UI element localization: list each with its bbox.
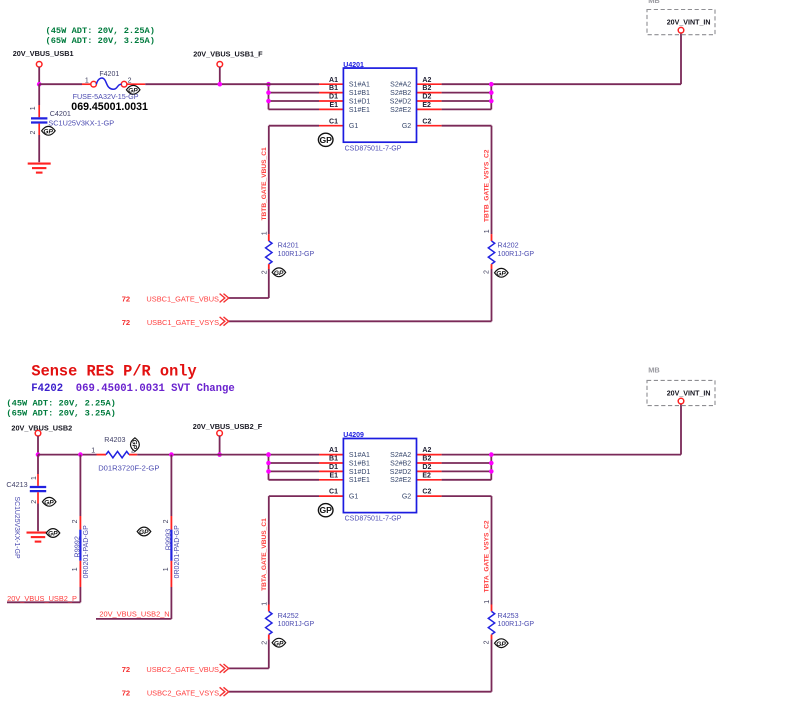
svg-text:R4201: R4201 [278,241,299,250]
svg-text:D1: D1 [329,464,338,471]
svg-text:20V_VBUS_USB2_F: 20V_VBUS_USB2_F [193,422,263,431]
svg-text:C1: C1 [329,118,338,125]
svg-text:S2#B2: S2#B2 [390,460,411,467]
svg-text:TBTB_GATE_VBUS_C1: TBTB_GATE_VBUS_C1 [261,147,268,220]
svg-text:A2: A2 [422,77,431,84]
svg-text:TBTA_GATE_VBUS_C1: TBTA_GATE_VBUS_C1 [261,518,268,591]
svg-text:C4213: C4213 [6,480,27,489]
svg-text:D2: D2 [422,464,431,471]
svg-text:2: 2 [262,641,269,645]
svg-text:(65W ADT: 20V, 3.25A): (65W ADT: 20V, 3.25A) [46,36,155,46]
svg-text:GP: GP [319,505,332,515]
svg-text:1: 1 [72,567,79,571]
svg-text:1: 1 [484,229,491,233]
svg-text:1: 1 [261,602,268,606]
svg-text:B1: B1 [329,456,338,463]
svg-text:20V_VBUS_USB1_F: 20V_VBUS_USB1_F [193,50,263,59]
svg-text:USBC2_GATE_VBUS: USBC2_GATE_VBUS [146,665,219,674]
svg-text:R4202: R4202 [498,241,519,250]
svg-text:100R1J-GP: 100R1J-GP [278,251,315,258]
svg-text:S1#A1: S1#A1 [349,82,370,89]
svg-text:1: 1 [261,231,268,235]
svg-text:A1: A1 [329,447,338,454]
svg-text:Sense RES P/R only: Sense RES P/R only [31,363,196,381]
svg-text:S1#E1: S1#E1 [349,477,370,484]
svg-text:20V_VINT_IN: 20V_VINT_IN [667,19,711,27]
svg-text:S1#B1: S1#B1 [349,90,370,97]
svg-text:1: 1 [31,476,38,480]
svg-text:S2#A2: S2#A2 [390,82,411,89]
svg-text:1: 1 [91,447,95,454]
svg-text:1: 1 [163,567,170,571]
svg-text:D1: D1 [329,94,338,101]
svg-text:B2: B2 [422,456,431,463]
svg-text:B1: B1 [329,85,338,92]
svg-text:G2: G2 [402,494,411,501]
svg-text:(45W ADT: 20V, 2.25A): (45W ADT: 20V, 2.25A) [46,26,155,36]
svg-text:SC1U25V3KX-1-GP: SC1U25V3KX-1-GP [48,119,114,128]
svg-text:C2: C2 [422,489,431,496]
svg-text:S2#D2: S2#D2 [390,98,412,105]
svg-text:72: 72 [122,318,130,327]
svg-text:2: 2 [30,131,37,135]
svg-text:S2#D2: S2#D2 [390,469,412,476]
svg-text:G2: G2 [402,123,411,130]
svg-text:R9993: R9993 [163,529,172,551]
svg-text:TBTB_GATE_VSYS_C2: TBTB_GATE_VSYS_C2 [484,149,491,222]
svg-text:20V_VBUS_USB2: 20V_VBUS_USB2 [11,424,72,433]
svg-text:S1#E1: S1#E1 [349,107,370,114]
svg-text:C1: C1 [329,489,338,496]
svg-text:F4201: F4201 [99,71,119,78]
svg-text:S2#B2: S2#B2 [390,90,411,97]
svg-text:069.45001.0031 SVT Change: 069.45001.0031 SVT Change [76,383,235,395]
svg-text:(45W ADT: 20V, 2.25A): (45W ADT: 20V, 2.25A) [6,399,115,409]
svg-text:2: 2 [72,519,79,523]
svg-text:A1: A1 [329,77,338,84]
svg-text:069.45001.0031: 069.45001.0031 [71,101,148,113]
svg-text:2: 2 [163,519,170,523]
svg-text:1: 1 [85,78,89,85]
svg-text:GP: GP [130,440,137,450]
svg-text:S2#E2: S2#E2 [390,477,411,484]
svg-text:MB: MB [648,366,660,375]
svg-text:20V_VBUS_USB2_P: 20V_VBUS_USB2_P [7,594,77,603]
svg-text:D01R3720F-2-GP: D01R3720F-2-GP [98,464,159,473]
svg-text:USBC2_GATE_VSYS: USBC2_GATE_VSYS [147,688,219,697]
svg-text:1: 1 [484,600,491,604]
svg-text:72: 72 [122,688,130,697]
svg-text:TBTA_GATE_VSYS_C2: TBTA_GATE_VSYS_C2 [484,520,491,592]
svg-text:GP: GP [496,270,506,277]
svg-text:R9992: R9992 [72,536,81,558]
svg-text:D2: D2 [422,94,431,101]
svg-text:MB: MB [648,0,660,5]
svg-text:GP: GP [48,531,58,538]
svg-text:G1: G1 [349,494,358,501]
svg-text:E2: E2 [422,472,431,479]
svg-text:E2: E2 [422,102,431,109]
svg-text:(65W ADT: 20V, 3.25A): (65W ADT: 20V, 3.25A) [6,408,115,418]
svg-text:0R0201-PAD-GP: 0R0201-PAD-GP [174,525,181,579]
svg-text:GP: GP [274,270,284,277]
svg-text:GP: GP [274,640,284,647]
svg-text:72: 72 [122,665,130,674]
svg-text:GP: GP [44,499,54,506]
svg-text:G1: G1 [349,123,358,130]
svg-text:2: 2 [262,270,269,274]
svg-text:SC1U25V3KX-1-GP: SC1U25V3KX-1-GP [13,497,20,559]
svg-text:100R1J-GP: 100R1J-GP [498,621,535,628]
svg-text:R4252: R4252 [278,611,299,620]
svg-text:2: 2 [484,270,491,274]
svg-text:R4253: R4253 [498,611,519,620]
svg-text:S2#A2: S2#A2 [390,452,411,459]
svg-text:USBC1_GATE_VBUS: USBC1_GATE_VBUS [146,295,219,304]
svg-text:S1#B1: S1#B1 [349,460,370,467]
svg-text:F4202: F4202 [31,383,63,395]
svg-text:R4203: R4203 [104,435,125,444]
svg-text:CSD87501L-7-GP: CSD87501L-7-GP [345,145,402,152]
svg-text:E1: E1 [329,472,338,479]
svg-text:72: 72 [122,295,130,304]
svg-text:CSD87501L-7-GP: CSD87501L-7-GP [345,516,402,523]
svg-text:C2: C2 [422,118,431,125]
svg-text:GP: GP [128,87,138,94]
svg-text:S2#E2: S2#E2 [390,107,411,114]
svg-text:GP: GP [319,135,332,145]
svg-text:2: 2 [128,78,132,85]
svg-text:1: 1 [30,106,37,110]
svg-text:100R1J-GP: 100R1J-GP [498,251,535,258]
svg-text:S1#D1: S1#D1 [349,98,371,105]
svg-text:20V_VBUS_USB2_N: 20V_VBUS_USB2_N [99,610,169,619]
svg-text:GP: GP [43,128,53,135]
svg-text:B2: B2 [422,85,431,92]
svg-text:A2: A2 [422,447,431,454]
svg-text:C4201: C4201 [50,109,71,118]
svg-text:100R1J-GP: 100R1J-GP [278,621,315,628]
svg-text:USBC1_GATE_VSYS: USBC1_GATE_VSYS [147,318,219,327]
svg-text:GP: GP [139,529,149,536]
svg-text:S1#A1: S1#A1 [349,452,370,459]
svg-text:2: 2 [484,640,491,644]
svg-text:0R0201-PAD-GP: 0R0201-PAD-GP [83,525,90,579]
svg-text:E1: E1 [329,102,338,109]
svg-text:GP: GP [496,641,506,648]
svg-text:2: 2 [31,500,38,504]
svg-text:S1#D1: S1#D1 [349,469,371,476]
svg-text:20V_VINT_IN: 20V_VINT_IN [667,390,711,398]
svg-text:20V_VBUS_USB1: 20V_VBUS_USB1 [13,49,74,58]
